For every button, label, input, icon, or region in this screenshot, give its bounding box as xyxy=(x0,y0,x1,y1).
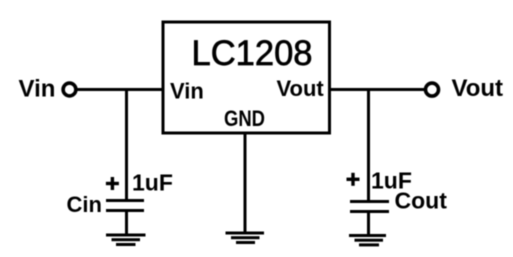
svg-text:Vout: Vout xyxy=(452,75,504,102)
polarity + for Cin xyxy=(106,177,119,190)
regulator U1 LC1208 body xyxy=(163,22,330,133)
svg-text:Vin: Vin xyxy=(170,79,204,104)
capacitor Cin plates xyxy=(106,199,144,212)
wire GND pin vertical xyxy=(244,132,247,232)
svg-text:Cout: Cout xyxy=(395,188,448,214)
svg-text:LC1208: LC1208 xyxy=(192,34,313,73)
wire input horizontal xyxy=(77,88,164,91)
wire junction Cin vertical xyxy=(125,88,128,201)
wire Cout to ground xyxy=(367,213,370,235)
terminal Vin circle xyxy=(63,83,76,96)
svg-text:GND: GND xyxy=(224,106,265,131)
capacitor Cout plates xyxy=(350,200,389,213)
svg-text:Vin: Vin xyxy=(19,76,56,103)
ground for GND pin xyxy=(226,232,265,245)
ground for Cout xyxy=(349,234,386,246)
wire junction Cout vertical xyxy=(367,88,370,201)
wire Cin to ground xyxy=(125,212,128,234)
wire output horizontal xyxy=(329,88,424,91)
svg-text:Vout: Vout xyxy=(277,76,325,101)
svg-text:1uF: 1uF xyxy=(132,170,173,196)
terminal Vout circle xyxy=(426,83,439,96)
ground for Cin xyxy=(106,234,146,247)
polarity + for Cout xyxy=(347,173,360,186)
svg-text:Cin: Cin xyxy=(67,192,102,217)
